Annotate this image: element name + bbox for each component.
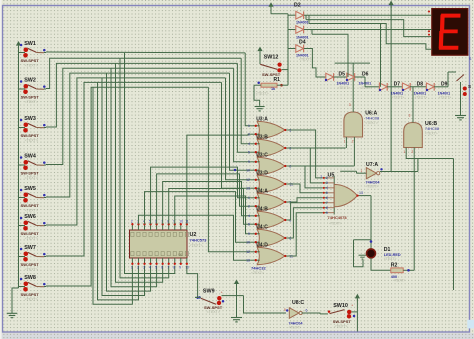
svg-text:SW-SPST: SW-SPST	[21, 133, 40, 138]
svg-text:1: 1	[361, 169, 363, 173]
svg-text:SW-SPST: SW-SPST	[21, 292, 40, 297]
svg-text:6: 6	[306, 309, 308, 313]
svg-text:OE: OE	[178, 253, 182, 257]
svg-text:<TEXT>: <TEXT>	[25, 64, 38, 68]
svg-text:9: 9	[248, 160, 250, 164]
svg-text:U7:A: U7:A	[366, 162, 378, 168]
svg-text:2: 2	[131, 219, 133, 223]
svg-text:1: 1	[248, 124, 250, 128]
svg-text:<TEXT>: <TEXT>	[334, 324, 347, 328]
svg-text:SW12: SW12	[264, 55, 279, 61]
svg-text:+: +	[427, 10, 429, 14]
svg-text:<TEXT>: <TEXT>	[251, 271, 264, 275]
svg-text:SW8: SW8	[24, 275, 36, 281]
svg-text:5: 5	[248, 151, 250, 155]
svg-text:9: 9	[248, 232, 250, 236]
svg-text:S: S	[468, 84, 471, 89]
svg-text:10: 10	[179, 219, 183, 223]
svg-text:<TEXT>: <TEXT>	[289, 326, 302, 330]
svg-text:7: 7	[326, 201, 328, 205]
svg-text:D2: D2	[294, 3, 301, 9]
svg-text:<TEXT>: <TEXT>	[415, 96, 428, 100]
svg-text:<TEXT>: <TEXT>	[392, 96, 405, 100]
svg-text:4: 4	[149, 266, 151, 270]
svg-text:SW2: SW2	[24, 77, 36, 83]
svg-text:U4:D: U4:D	[256, 242, 268, 248]
svg-text:<TEXT>: <TEXT>	[25, 100, 38, 104]
svg-text:<TEXT>: <TEXT>	[393, 279, 406, 283]
svg-text:<TEXT>: <TEXT>	[207, 310, 220, 314]
svg-text:<TEXT>: <TEXT>	[299, 58, 312, 62]
svg-text:5: 5	[248, 223, 250, 227]
svg-text:U3:B: U3:B	[256, 134, 268, 140]
svg-text:<TEXT>: <TEXT>	[365, 121, 378, 125]
svg-text:1: 1	[344, 140, 346, 144]
svg-text:<TEXT>: <TEXT>	[329, 222, 342, 226]
svg-text:SW-SPST: SW-SPST	[21, 262, 40, 267]
svg-text:6: 6	[161, 266, 163, 270]
svg-text:2: 2	[248, 133, 250, 137]
svg-text:12: 12	[246, 178, 250, 182]
svg-text:<TEXT>: <TEXT>	[25, 209, 38, 213]
svg-text:SW1: SW1	[24, 41, 36, 47]
svg-text:SW5: SW5	[24, 186, 36, 192]
svg-text:<TEXT>: <TEXT>	[25, 139, 38, 143]
svg-text:1: 1	[403, 150, 405, 154]
svg-text:2: 2	[411, 150, 413, 154]
svg-text:U5: U5	[328, 173, 335, 179]
svg-text:74HC4078: 74HC4078	[328, 215, 348, 220]
svg-text:+: +	[351, 304, 353, 308]
svg-text:D4: D4	[299, 40, 306, 46]
svg-text:9: 9	[179, 266, 181, 270]
svg-text:<TEXT>: <TEXT>	[25, 237, 38, 241]
svg-text:<TEXT>: <TEXT>	[25, 268, 38, 272]
svg-text:<TEXT>: <TEXT>	[256, 92, 269, 96]
svg-text:13: 13	[246, 187, 250, 191]
svg-text:<TEXT>: <TEXT>	[366, 185, 379, 189]
svg-text:3: 3	[143, 266, 145, 270]
svg-text:13: 13	[359, 191, 363, 195]
svg-text:1: 1	[248, 196, 250, 200]
svg-text:3: 3	[326, 181, 328, 185]
svg-text:5: 5	[326, 191, 328, 195]
svg-text:8: 8	[173, 266, 175, 270]
svg-text:10: 10	[246, 241, 250, 245]
svg-text:SW3: SW3	[24, 116, 36, 122]
svg-text:<TEXT>: <TEXT>	[338, 86, 351, 90]
svg-text:13: 13	[246, 259, 250, 263]
svg-text:SW6: SW6	[24, 214, 36, 220]
svg-text:SW-SPST: SW-SPST	[21, 231, 40, 236]
svg-text:U3:A: U3:A	[256, 116, 268, 122]
svg-text:SW-SPST: SW-SPST	[21, 58, 40, 63]
svg-text:12: 12	[246, 250, 250, 254]
svg-text:7: 7	[167, 266, 169, 270]
svg-text:10: 10	[246, 169, 250, 173]
svg-text:<TEXT>: <TEXT>	[384, 257, 397, 261]
svg-text:2: 2	[352, 140, 354, 144]
svg-text:1N4001: 1N4001	[296, 20, 309, 24]
svg-text:SW7: SW7	[24, 245, 36, 251]
svg-text:74HC573: 74HC573	[190, 238, 208, 243]
svg-text:4: 4	[248, 142, 250, 146]
svg-text:2: 2	[137, 266, 139, 270]
svg-text:1: 1	[131, 266, 133, 270]
svg-text:2: 2	[248, 205, 250, 209]
svg-text:U3:D: U3:D	[256, 170, 268, 176]
svg-text:SW9: SW9	[203, 288, 215, 294]
svg-text:6: 6	[326, 196, 328, 200]
svg-text:SW10: SW10	[333, 303, 348, 309]
svg-text:R2: R2	[391, 262, 398, 268]
svg-text:+: +	[221, 290, 223, 294]
svg-text:3: 3	[349, 103, 351, 107]
svg-text:4: 4	[248, 214, 250, 218]
svg-text:5: 5	[155, 266, 157, 270]
svg-text:R1: R1	[274, 77, 281, 83]
svg-text:+: +	[427, 30, 429, 34]
svg-text:SW4: SW4	[24, 153, 36, 159]
svg-text:2: 2	[321, 175, 323, 179]
svg-text:<TEXT>: <TEXT>	[25, 176, 38, 180]
svg-text:5: 5	[284, 308, 286, 312]
svg-text:<TEXT>: <TEXT>	[190, 243, 203, 247]
svg-text:<TEXT>: <TEXT>	[439, 96, 452, 100]
svg-text:U4:C: U4:C	[256, 224, 268, 230]
svg-text:U3:C: U3:C	[256, 152, 268, 158]
svg-text:U8:C: U8:C	[292, 300, 304, 306]
svg-text:4: 4	[326, 186, 328, 190]
svg-text:U4:B: U4:B	[256, 206, 268, 212]
svg-text:SW-SPST: SW-SPST	[21, 95, 40, 100]
svg-text:74HC32: 74HC32	[251, 266, 266, 271]
svg-text:SW-SPST: SW-SPST	[21, 171, 40, 176]
svg-text:3: 3	[409, 114, 411, 118]
svg-text:SW-SPST: SW-SPST	[21, 203, 40, 208]
svg-text:U4:A: U4:A	[256, 188, 268, 194]
svg-text:<TEXT>: <TEXT>	[25, 298, 38, 302]
svg-text:<TEXT>: <TEXT>	[425, 131, 438, 135]
svg-text:8: 8	[326, 206, 328, 210]
